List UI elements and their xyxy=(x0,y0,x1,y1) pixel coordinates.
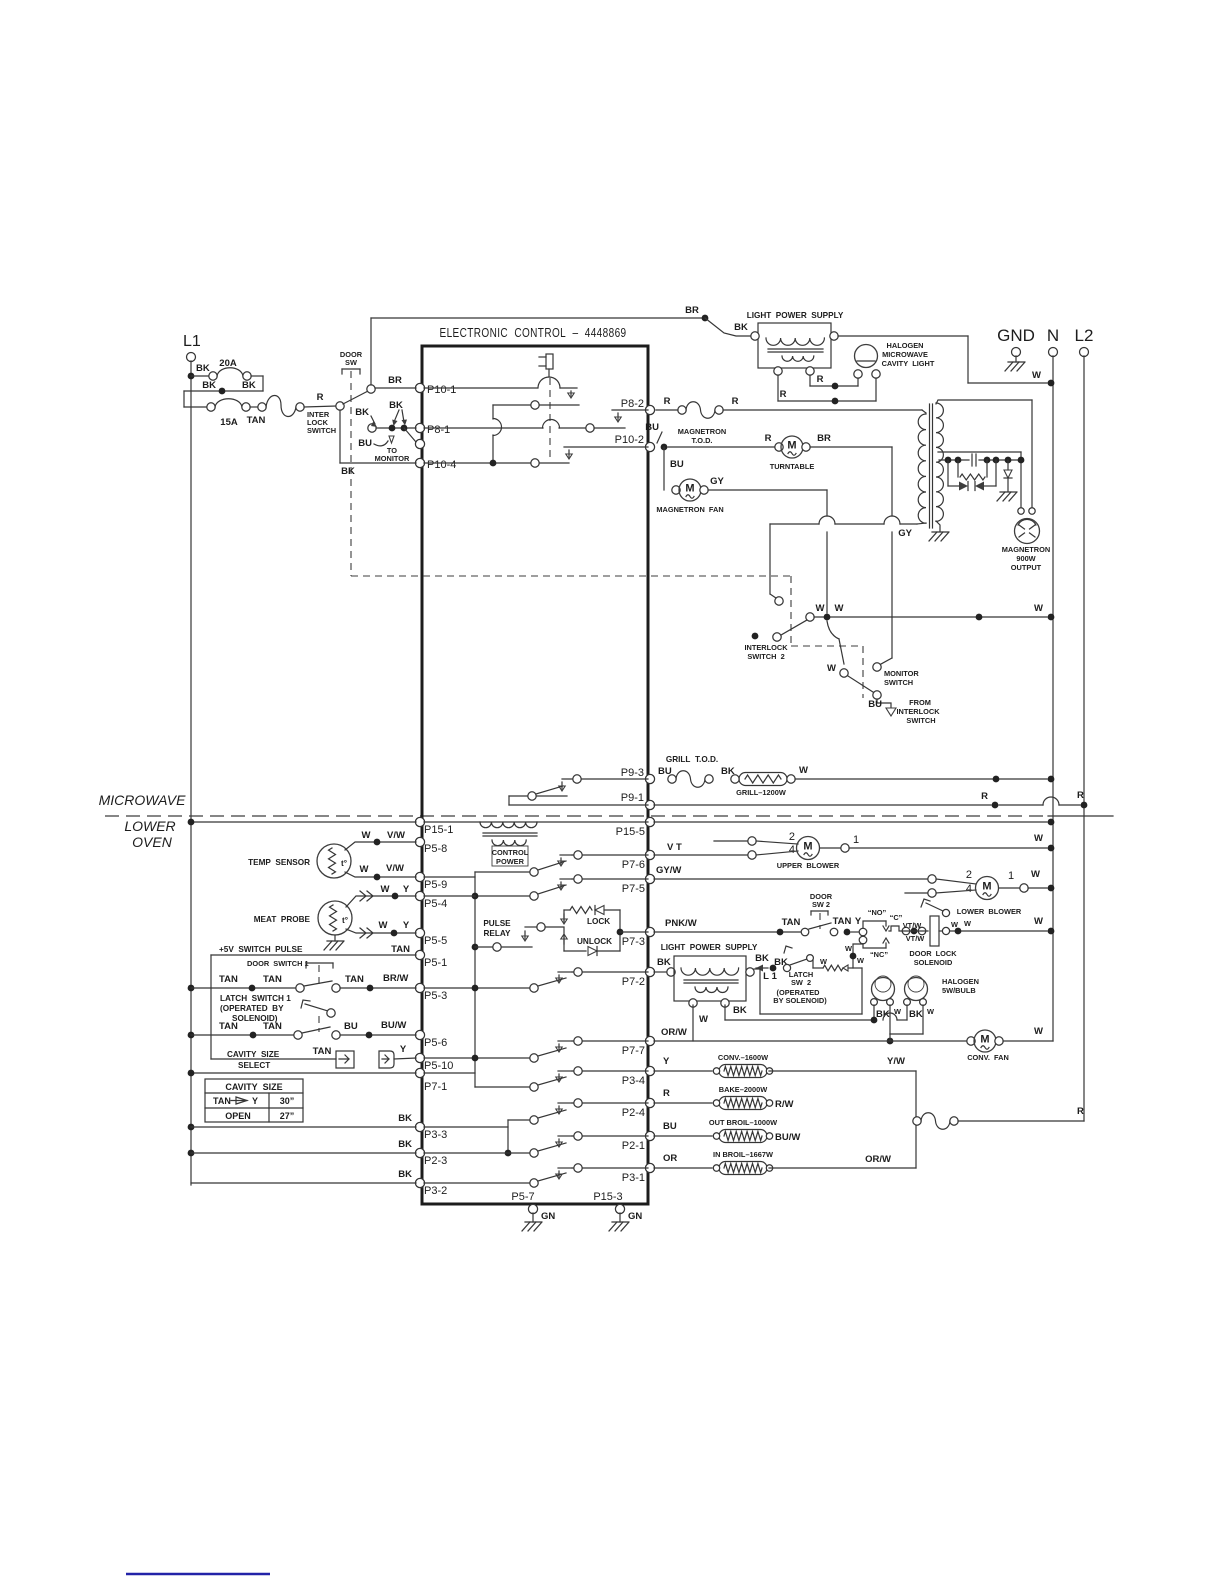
svg-text:4: 4 xyxy=(966,883,972,895)
svg-text:TAN: TAN xyxy=(833,916,852,927)
svg-text:SWITCH: SWITCH xyxy=(884,678,913,687)
svg-text:W: W xyxy=(1034,833,1043,844)
svg-text:BK: BK xyxy=(734,322,748,333)
svg-text:CAVITY SIZE: CAVITY SIZE xyxy=(225,1082,282,1092)
svg-text:OR: OR xyxy=(663,1153,677,1164)
svg-text:FROM: FROM xyxy=(909,698,931,707)
svg-text:MAGNETRON: MAGNETRON xyxy=(1002,545,1050,554)
svg-text:P15-1: P15-1 xyxy=(424,824,453,836)
svg-text:OPEN: OPEN xyxy=(225,1111,251,1121)
svg-text:P9-1: P9-1 xyxy=(621,792,644,804)
svg-text:BK: BK xyxy=(909,1009,923,1020)
svg-text:GY: GY xyxy=(710,476,724,487)
svg-text:GRILL–1200W: GRILL–1200W xyxy=(736,788,786,797)
svg-text:W: W xyxy=(379,920,388,931)
svg-text:P3-1: P3-1 xyxy=(622,1172,645,1184)
svg-text:LIGHT POWER SUPPLY: LIGHT POWER SUPPLY xyxy=(661,943,758,952)
svg-text:15A: 15A xyxy=(220,417,238,428)
svg-text:Y: Y xyxy=(403,884,410,895)
svg-text:R: R xyxy=(317,392,324,403)
svg-text:SWITCH 2: SWITCH 2 xyxy=(747,652,784,661)
svg-text:TAN: TAN xyxy=(782,917,801,928)
svg-text:GND: GND xyxy=(997,326,1035,345)
svg-text:P9-3: P9-3 xyxy=(621,767,644,779)
svg-text:TAN: TAN xyxy=(263,1021,282,1032)
svg-text:CONTROL: CONTROL xyxy=(492,848,529,857)
svg-text:W: W xyxy=(845,944,852,953)
svg-text:R/W: R/W xyxy=(775,1099,794,1110)
svg-text:GY: GY xyxy=(898,528,912,539)
svg-text:CONV.–1600W: CONV.–1600W xyxy=(718,1053,768,1062)
svg-text:W: W xyxy=(827,663,836,674)
svg-text:SW 2: SW 2 xyxy=(812,900,830,909)
svg-text:BK: BK xyxy=(242,380,256,391)
svg-text:SWITCH: SWITCH xyxy=(906,716,935,725)
svg-text:P7-7: P7-7 xyxy=(622,1045,645,1057)
svg-text:P3-4: P3-4 xyxy=(622,1075,645,1087)
svg-text:TAN: TAN xyxy=(219,974,238,985)
svg-text:L1: L1 xyxy=(183,333,201,350)
svg-text:TAN: TAN xyxy=(213,1096,231,1106)
svg-text:1: 1 xyxy=(1008,870,1014,882)
svg-text:MICROWAVE: MICROWAVE xyxy=(882,350,928,359)
svg-text:R: R xyxy=(765,433,772,444)
svg-text:+5V SWITCH PULSE: +5V SWITCH PULSE xyxy=(219,945,303,954)
svg-text:N: N xyxy=(1047,326,1059,345)
svg-text:W: W xyxy=(857,956,864,965)
svg-text:TURNTABLE: TURNTABLE xyxy=(770,462,815,471)
svg-text:BK: BK xyxy=(389,400,403,411)
svg-text:M: M xyxy=(803,841,812,853)
svg-text:OUT BROIL–1000W: OUT BROIL–1000W xyxy=(709,1118,777,1127)
svg-text:UPPER BLOWER: UPPER BLOWER xyxy=(777,861,840,870)
svg-text:BR: BR xyxy=(817,433,831,444)
svg-text:P5-4: P5-4 xyxy=(424,898,447,910)
svg-text:R: R xyxy=(1077,790,1084,801)
svg-text:R: R xyxy=(780,389,787,400)
svg-text:VT/W: VT/W xyxy=(906,934,924,943)
svg-text:BR: BR xyxy=(685,305,699,316)
svg-text:BAKE–2000W: BAKE–2000W xyxy=(719,1085,767,1094)
svg-text:M: M xyxy=(982,881,991,893)
svg-text:M: M xyxy=(980,1034,989,1046)
svg-text:GY/W: GY/W xyxy=(656,865,681,876)
svg-text:t°: t° xyxy=(342,916,348,925)
svg-text:TAN: TAN xyxy=(391,944,410,955)
svg-text:W: W xyxy=(360,864,369,875)
svg-text:P7-6: P7-6 xyxy=(622,859,645,871)
svg-text:P3-3: P3-3 xyxy=(424,1129,447,1141)
svg-text:LOWER: LOWER xyxy=(124,818,175,834)
svg-text:P15-3: P15-3 xyxy=(593,1191,622,1203)
svg-text:DOOR LOCK: DOOR LOCK xyxy=(909,949,957,958)
svg-text:TAN: TAN xyxy=(345,974,364,985)
svg-text:W: W xyxy=(799,765,808,776)
svg-text:M: M xyxy=(685,483,694,495)
svg-text:2: 2 xyxy=(789,831,795,843)
svg-text:PNK/W: PNK/W xyxy=(665,918,697,929)
svg-text:T.O.D.: T.O.D. xyxy=(692,436,713,445)
svg-text:SWITCH: SWITCH xyxy=(307,426,336,435)
svg-text:L 1: L 1 xyxy=(763,971,777,982)
svg-text:INTERLOCK: INTERLOCK xyxy=(896,707,940,716)
svg-text:BK: BK xyxy=(398,1169,412,1180)
svg-text:“NO”: “NO” xyxy=(868,908,887,917)
svg-text:P10-4: P10-4 xyxy=(427,459,456,471)
svg-text:Y: Y xyxy=(252,1096,258,1106)
svg-text:P7-3: P7-3 xyxy=(622,936,645,948)
svg-text:P10-2: P10-2 xyxy=(615,434,644,446)
svg-text:W: W xyxy=(1032,370,1041,381)
svg-text:P2-4: P2-4 xyxy=(622,1107,645,1119)
svg-text:W: W xyxy=(951,920,958,929)
svg-text:R: R xyxy=(664,396,671,407)
svg-text:P8-2: P8-2 xyxy=(621,398,644,410)
svg-text:IN BROIL–1667W: IN BROIL–1667W xyxy=(713,1150,773,1159)
svg-text:P5-8: P5-8 xyxy=(424,843,447,855)
svg-text:W: W xyxy=(381,884,390,895)
svg-text:SOLENOID: SOLENOID xyxy=(914,958,953,967)
svg-text:W: W xyxy=(816,603,825,614)
svg-text:TAN: TAN xyxy=(263,974,282,985)
svg-text:P10-1: P10-1 xyxy=(427,384,456,396)
svg-text:900W: 900W xyxy=(1016,554,1035,563)
svg-text:5W/BULB: 5W/BULB xyxy=(942,986,976,995)
svg-text:P2-3: P2-3 xyxy=(424,1155,447,1167)
svg-text:INTERLOCK: INTERLOCK xyxy=(744,643,788,652)
svg-text:M: M xyxy=(787,440,796,452)
svg-text:P7-2: P7-2 xyxy=(622,976,645,988)
svg-text:CAVITY LIGHT: CAVITY LIGHT xyxy=(882,359,935,368)
svg-text:CONV. FAN: CONV. FAN xyxy=(967,1053,1009,1062)
svg-text:BU: BU xyxy=(670,459,684,470)
svg-text:P5-7: P5-7 xyxy=(511,1191,534,1203)
svg-text:P5-10: P5-10 xyxy=(424,1060,453,1072)
svg-text:BU: BU xyxy=(358,438,372,449)
svg-text:RELAY: RELAY xyxy=(484,929,512,938)
svg-text:Y: Y xyxy=(855,916,862,927)
svg-text:P5-1: P5-1 xyxy=(424,957,447,969)
svg-text:OUTPUT: OUTPUT xyxy=(1011,563,1042,572)
svg-text:“C”: “C” xyxy=(890,913,903,922)
svg-text:BK: BK xyxy=(196,363,210,374)
svg-text:L2: L2 xyxy=(1075,326,1094,345)
svg-text:BU: BU xyxy=(645,422,659,433)
svg-text:R: R xyxy=(663,1088,670,1099)
svg-text:BU/W: BU/W xyxy=(381,1020,406,1031)
svg-text:BK: BK xyxy=(755,953,769,964)
svg-text:TAN: TAN xyxy=(219,1021,238,1032)
svg-text:R: R xyxy=(817,374,824,385)
svg-text:SW 2: SW 2 xyxy=(791,978,811,987)
svg-text:BK: BK xyxy=(657,957,671,968)
svg-text:BK: BK xyxy=(398,1139,412,1150)
svg-text:20A: 20A xyxy=(219,358,237,369)
svg-text:HALOGEN: HALOGEN xyxy=(887,341,924,350)
svg-text:W: W xyxy=(362,830,371,841)
svg-text:DOOR SWITCH 1: DOOR SWITCH 1 xyxy=(247,959,309,968)
svg-text:GN: GN xyxy=(541,1211,555,1222)
svg-text:BK: BK xyxy=(341,466,355,477)
svg-text:SELECT: SELECT xyxy=(238,1061,270,1070)
svg-text:MEAT PROBE: MEAT PROBE xyxy=(254,915,311,924)
svg-text:W: W xyxy=(699,1014,708,1025)
svg-text:POWER: POWER xyxy=(496,857,525,866)
svg-text:BR: BR xyxy=(388,375,402,386)
svg-text:OR/W: OR/W xyxy=(661,1027,687,1038)
svg-text:P8-1: P8-1 xyxy=(427,424,450,436)
svg-text:LOWER BLOWER: LOWER BLOWER xyxy=(957,907,1022,916)
svg-text:Y/W: Y/W xyxy=(887,1056,905,1067)
svg-text:Y: Y xyxy=(400,1044,407,1055)
svg-text:LIGHT POWER SUPPLY: LIGHT POWER SUPPLY xyxy=(747,311,844,320)
svg-text:W: W xyxy=(1034,603,1043,614)
svg-text:30”: 30” xyxy=(280,1096,295,1106)
svg-text:GN: GN xyxy=(628,1211,642,1222)
svg-text:HALOGEN: HALOGEN xyxy=(942,977,979,986)
svg-text:BK: BK xyxy=(733,1005,747,1016)
svg-text:BR/W: BR/W xyxy=(383,973,408,984)
svg-text:MAGNETRON FAN: MAGNETRON FAN xyxy=(656,505,723,514)
svg-text:TAN: TAN xyxy=(313,1046,332,1057)
svg-text:R: R xyxy=(1077,1106,1084,1117)
svg-text:TEMP SENSOR: TEMP SENSOR xyxy=(248,858,310,867)
svg-text:GRILL T.O.D.: GRILL T.O.D. xyxy=(666,755,718,764)
svg-text:R: R xyxy=(732,396,739,407)
svg-text:ELECTRONIC CONTROL – 444886: ELECTRONIC CONTROL – 4448869 xyxy=(440,325,627,340)
svg-text:MAGNETRON: MAGNETRON xyxy=(678,427,726,436)
svg-text:2: 2 xyxy=(966,869,972,881)
svg-text:MONITOR: MONITOR xyxy=(884,669,919,678)
svg-text:BU: BU xyxy=(663,1121,677,1132)
svg-text:OR/W: OR/W xyxy=(865,1154,891,1165)
svg-text:BK: BK xyxy=(398,1113,412,1124)
svg-text:W: W xyxy=(1034,916,1043,927)
svg-text:W: W xyxy=(964,919,971,928)
svg-text:P7-5: P7-5 xyxy=(622,883,645,895)
svg-text:1: 1 xyxy=(853,834,859,846)
svg-text:VT/W: VT/W xyxy=(903,921,921,930)
svg-text:W: W xyxy=(820,957,827,966)
svg-text:MONITOR: MONITOR xyxy=(375,454,410,463)
svg-text:P5-3: P5-3 xyxy=(424,990,447,1002)
svg-text:4: 4 xyxy=(789,844,795,856)
svg-text:27”: 27” xyxy=(280,1111,295,1121)
svg-text:V T: V T xyxy=(667,842,682,853)
svg-text:BU/W: BU/W xyxy=(775,1132,800,1143)
svg-text:MICROWAVE: MICROWAVE xyxy=(99,792,187,808)
svg-text:LATCH SWITCH 1: LATCH SWITCH 1 xyxy=(220,994,291,1003)
svg-text:P15-5: P15-5 xyxy=(616,826,645,838)
svg-text:(OPERATED BY: (OPERATED BY xyxy=(220,1004,284,1013)
svg-text:P7-1: P7-1 xyxy=(424,1081,447,1093)
svg-text:W: W xyxy=(835,603,844,614)
svg-text:BK: BK xyxy=(202,380,216,391)
svg-text:P5-6: P5-6 xyxy=(424,1037,447,1049)
svg-text:OVEN: OVEN xyxy=(132,834,173,850)
svg-text:LOCK: LOCK xyxy=(587,917,610,926)
svg-text:P2-1: P2-1 xyxy=(622,1140,645,1152)
svg-text:P3-2: P3-2 xyxy=(424,1185,447,1197)
svg-text:SW: SW xyxy=(345,358,357,367)
svg-text:BY SOLENOID): BY SOLENOID) xyxy=(773,996,827,1005)
svg-text:“NC”: “NC” xyxy=(870,950,888,959)
svg-text:BU: BU xyxy=(344,1021,358,1032)
svg-text:t°: t° xyxy=(341,859,347,868)
svg-text:BK: BK xyxy=(355,407,369,418)
svg-text:PULSE: PULSE xyxy=(483,919,511,928)
svg-text:BU: BU xyxy=(868,699,882,710)
svg-text:P5-5: P5-5 xyxy=(424,935,447,947)
svg-text:CAVITY SIZE: CAVITY SIZE xyxy=(227,1050,280,1059)
svg-text:V/W: V/W xyxy=(387,830,405,841)
svg-text:W: W xyxy=(1031,869,1040,880)
svg-text:W: W xyxy=(927,1007,934,1016)
svg-text:UNLOCK: UNLOCK xyxy=(577,937,612,946)
svg-text:Y: Y xyxy=(663,1056,670,1067)
svg-text:W: W xyxy=(1034,1026,1043,1037)
svg-text:Y: Y xyxy=(403,920,410,931)
svg-text:V/W: V/W xyxy=(386,863,404,874)
svg-text:TAN: TAN xyxy=(247,415,266,426)
svg-text:P5-9: P5-9 xyxy=(424,879,447,891)
svg-text:R: R xyxy=(981,791,988,802)
